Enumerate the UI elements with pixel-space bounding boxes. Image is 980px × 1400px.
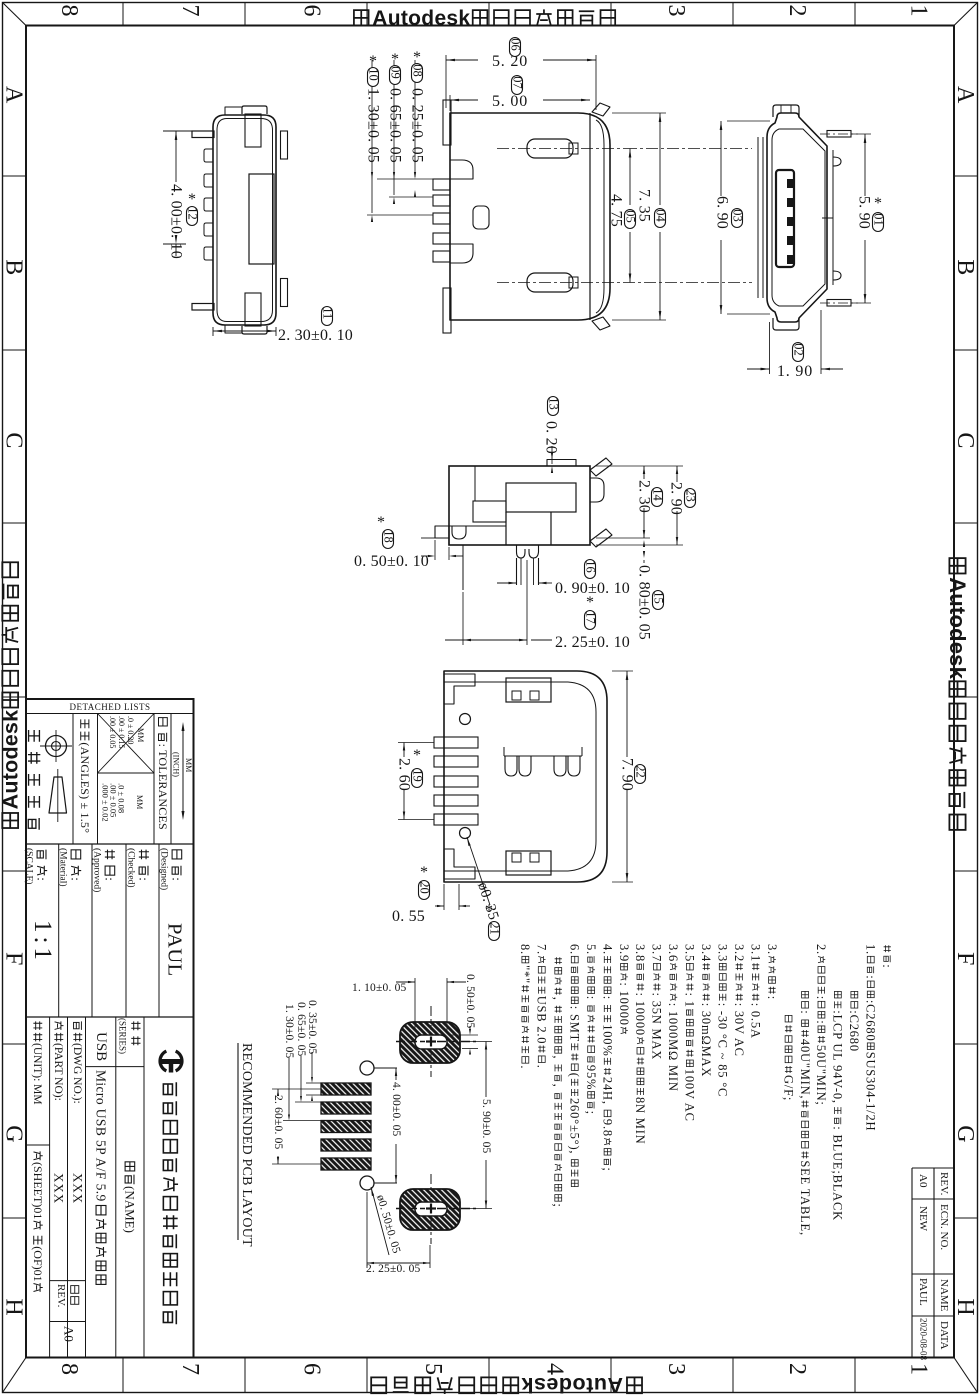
name label cell	[123, 1162, 138, 1233]
svg-text:05: 05	[623, 210, 637, 223]
svg-text::: :	[170, 877, 185, 881]
series cell	[131, 1021, 140, 1045]
svg-text:22: 22	[633, 765, 647, 778]
svg-text:G/F;: G/F;	[781, 1075, 795, 1101]
svg-text:1.: 1.	[864, 944, 878, 955]
svg-text:A: A	[952, 86, 978, 104]
svg-text::: :	[765, 996, 779, 1000]
balloon 04	[655, 209, 666, 228]
svg-text::: :	[103, 877, 118, 881]
svg-text:21: 21	[487, 922, 501, 935]
view E bracket top-left	[444, 674, 475, 704]
svg-text:*: *	[188, 191, 196, 208]
svg-text:C: C	[0, 432, 26, 448]
dim 1.10±0.05 pcb	[414, 978, 416, 1031]
mm/inch arrow cell	[182, 726, 184, 816]
svg-text:2. 25±0. 05: 2. 25±0. 05	[366, 1263, 421, 1275]
svg-text:5. 90±0. 05: 5. 90±0. 05	[480, 1099, 492, 1154]
svg-text:16: 16	[583, 560, 597, 573]
svg-text::C2680: :C2680	[864, 1000, 878, 1042]
svg-text:Micro USB 5P A/F 5.9: Micro USB 5P A/F 5.9	[93, 1070, 108, 1202]
svg-text:6: 6	[299, 5, 325, 17]
view D left foot	[435, 526, 449, 538]
svg-text:0. 50±0. 10: 0. 50±0. 10	[354, 553, 429, 570]
svg-text:DETACHED LISTS: DETACHED LISTS	[69, 702, 150, 712]
svg-text:*: *	[485, 902, 493, 919]
svg-text:(: (	[568, 1073, 582, 1078]
svg-text:: 30mΩMAX: : 30mΩMAX	[699, 1003, 713, 1077]
svg-text:B: B	[952, 259, 978, 275]
view D baseline extension	[421, 537, 435, 539]
svg-text:.: .	[535, 1065, 549, 1069]
view B latch knob top	[527, 139, 573, 158]
svg-text:0. 20: 0. 20	[543, 421, 560, 454]
svg-text:: TOLERANCES: : TOLERANCES	[156, 744, 170, 830]
svg-text:*: *	[413, 49, 421, 66]
svg-text:(INCH): (INCH)	[171, 752, 180, 777]
company name	[163, 1082, 178, 1324]
svg-text:(ANGLES) ± 1.5°: (ANGLES) ± 1.5°	[78, 742, 92, 833]
view E 5 terminal pins	[434, 737, 478, 748]
dim 6.90	[727, 120, 770, 122]
balloon 21	[489, 922, 500, 941]
svg-text:NAME: NAME	[938, 1279, 950, 1312]
svg-text:(UNIT): MM: (UNIT): MM	[31, 1043, 43, 1105]
svg-text:,: ,	[551, 997, 565, 1001]
svg-text::: :	[798, 1010, 812, 1014]
corner diagonals	[3, 3, 27, 26]
svg-text:MM: MM	[135, 795, 144, 809]
svg-text:7. 90: 7. 90	[619, 758, 636, 791]
svg-text::: :	[35, 877, 50, 881]
svg-text:NEW: NEW	[917, 1206, 929, 1232]
svg-text:8: 8	[56, 5, 82, 17]
svg-text:G: G	[952, 1125, 978, 1142]
svg-text:PAUL: PAUL	[917, 1278, 929, 1306]
svg-text:1. 90: 1. 90	[777, 363, 813, 380]
svg-text:18: 18	[381, 530, 395, 543]
svg-text:10: 10	[366, 68, 380, 81]
svg-text:1. 30±0. 05: 1. 30±0. 05	[365, 88, 382, 163]
svg-text:A0: A0	[917, 1174, 929, 1188]
svg-text:A: A	[0, 86, 26, 104]
svg-text:USB 2.0: USB 2.0	[535, 996, 549, 1045]
balloon 06	[510, 38, 521, 57]
svg-text:260°±5°),: 260°±5°),	[568, 1098, 582, 1154]
svg-text:.0 ± 0.20: .0 ± 0.20	[126, 716, 135, 744]
notes 备注 text block	[518, 944, 894, 1236]
view B left shoulder top	[450, 160, 473, 179]
material cell	[69, 850, 84, 881]
usb cell	[93, 1032, 109, 1061]
view C right solder pins	[827, 131, 851, 138]
svg-text:2. 60±0. 05: 2. 60±0. 05	[272, 1095, 284, 1150]
view B corner clip top-right	[592, 103, 610, 116]
balloon 22	[635, 765, 646, 784]
dims 0.35 0.65 1.30 pcb pads	[306, 1000, 318, 1055]
dim 0.80±0.05	[643, 560, 645, 563]
dim 5.00	[449, 95, 451, 111]
view D right clip top	[590, 458, 612, 476]
svg-text:(SCALE): (SCALE)	[23, 848, 34, 884]
title block outline	[26, 699, 194, 1358]
view C shell seam lines	[757, 137, 759, 298]
svg-text:2. 25±0. 10: 2. 25±0. 10	[555, 634, 630, 651]
view A tongue block	[249, 174, 274, 264]
svg-text:F: F	[0, 952, 26, 965]
view A right side tabs	[281, 131, 288, 159]
view C top tab	[773, 105, 799, 117]
view C tongue with 5 contacts	[776, 170, 794, 267]
view E latch bottom	[506, 851, 551, 875]
svg-text::C2680: :C2680	[847, 1010, 861, 1052]
svg-text:3.1: 3.1	[748, 944, 762, 962]
dim 4.00±0.10 left of view A	[163, 130, 192, 132]
balloon 03	[732, 209, 743, 228]
dim 4.00±0.05 pcb	[395, 1068, 397, 1080]
svg-text:USB: USB	[93, 1032, 109, 1061]
pcb 5 pads (hatched)	[321, 1083, 371, 1095]
svg-text:50U"MIN;: 50U"MIN;	[814, 1045, 828, 1106]
dim 2.30±0.10 below view A	[212, 327, 214, 336]
svg-text:SEE TABLE,: SEE TABLE,	[798, 1160, 812, 1236]
svg-text:2: 2	[784, 1363, 810, 1375]
svg-text:0. 65±0. 05: 0. 65±0. 05	[295, 1002, 307, 1057]
view B latch knob bottom	[527, 273, 573, 292]
svg-text::: :	[864, 975, 878, 979]
svg-text:F: F	[952, 952, 978, 965]
view E latch top	[506, 678, 551, 702]
svg-text:(SERIES): (SERIES)	[118, 1018, 128, 1054]
svg-text:REV.: REV.	[55, 1284, 67, 1308]
svg-text:5. 90: 5. 90	[856, 196, 873, 229]
svg-text:2. 30: 2. 30	[636, 480, 653, 513]
view C right outer contour	[832, 150, 834, 285]
svg-text:12: 12	[185, 207, 199, 220]
balloon 19	[412, 769, 423, 788]
svg-text:RECOMMENDED PCB LAYOUT: RECOMMENDED PCB LAYOUT	[239, 1043, 254, 1247]
svg-text:1: 1	[906, 1363, 932, 1375]
view D center anchor block	[506, 512, 551, 545]
svg-text:.00 ± 0.05: .00 ± 0.05	[108, 716, 117, 748]
svg-text:95%: 95%	[584, 1065, 598, 1090]
svg-text:*: *	[391, 51, 399, 68]
svg-text:(Designed): (Designed)	[158, 848, 169, 890]
svg-text:3.2: 3.2	[732, 944, 746, 962]
svg-text:(Approved): (Approved)	[91, 848, 102, 892]
svg-text:Autodesk: Autodesk	[0, 710, 23, 810]
svg-text:17: 17	[583, 611, 597, 624]
view C: connector front view (top right)	[767, 113, 827, 322]
leader ø0.35 view E	[467, 837, 490, 905]
pcb via holes	[360, 1061, 374, 1075]
detached lists band	[26, 713, 194, 715]
rev cells	[71, 1286, 79, 1305]
svg-text:02: 02	[791, 343, 805, 356]
balloon 14	[652, 488, 663, 507]
svg-text:2.: 2.	[814, 944, 828, 955]
svg-text:: -30 °C ~ 85 °C: : -30 °C ~ 85 °C	[716, 1003, 730, 1097]
pcb pad top (hatched)	[400, 1022, 460, 1063]
view D top edge step (0.20)	[547, 460, 576, 467]
svg-text:ECN. NO.: ECN. NO.	[938, 1204, 950, 1250]
svg-text:5.: 5.	[584, 944, 598, 955]
svg-text:2. 90: 2. 90	[668, 482, 685, 515]
svg-text:A0: A0	[62, 1326, 77, 1342]
approved cell	[103, 850, 118, 881]
svg-text:XXX: XXX	[71, 1173, 86, 1204]
svg-text:(NAME): (NAME)	[123, 1186, 138, 1233]
svg-text::LCP UL 94V-0,: :LCP UL 94V-0,	[831, 1010, 845, 1104]
lower block grid	[49, 1017, 51, 1358]
svg-text:3.6: 3.6	[666, 944, 680, 962]
svg-text:6. 90: 6. 90	[714, 196, 731, 229]
leader ø0.50±0.05 pcb	[371, 1187, 389, 1255]
svg-text:.: .	[518, 1065, 532, 1069]
svg-text:REV.: REV.	[938, 1172, 950, 1196]
svg-text::: :	[69, 877, 84, 881]
svg-text:PAUL: PAUL	[164, 923, 186, 977]
svg-text::: :	[814, 1020, 828, 1024]
view A top latch tab	[242, 106, 267, 114]
svg-text:: 30V AC: : 30V AC	[732, 1003, 746, 1057]
svg-text:2. 30±0. 10: 2. 30±0. 10	[278, 327, 353, 344]
dim 2.30	[596, 465, 683, 467]
balloon 16	[585, 560, 596, 579]
svg-text:SUS304-1/2H: SUS304-1/2H	[864, 1052, 878, 1132]
svg-text:3.8: 3.8	[633, 944, 647, 962]
svg-text:100%: 100%	[600, 1024, 614, 1056]
view B left shoulder bottom	[450, 244, 473, 263]
svg-text:04: 04	[653, 209, 667, 222]
svg-text:0. 55: 0. 55	[392, 908, 425, 925]
svg-text:3.4: 3.4	[699, 944, 713, 962]
svg-text:3.3: 3.3	[716, 944, 730, 962]
tolerances label cell	[156, 718, 170, 830]
svg-text:1. 10±0. 05: 1. 10±0. 05	[352, 982, 407, 994]
svg-text:MM: MM	[184, 758, 193, 772]
balloon 13	[548, 397, 559, 416]
svg-text:;: ;	[584, 1111, 598, 1115]
svg-text:23: 23	[683, 489, 697, 502]
svg-text:3.: 3.	[765, 944, 779, 955]
RECOMMENDED PCB LAYOUT title	[239, 1043, 254, 1247]
balloon 02	[793, 343, 804, 362]
checked cell	[137, 850, 152, 881]
svg-text:06: 06	[508, 38, 522, 51]
view E bracket bottom-left	[444, 849, 475, 879]
svg-text:Autodesk: Autodesk	[521, 1373, 623, 1395]
svg-text:15: 15	[651, 591, 665, 604]
view D right clip bottom	[590, 529, 612, 547]
view C right small bumps	[833, 157, 841, 166]
svg-text:40U"MIN,: 40U"MIN,	[798, 1039, 812, 1099]
svg-text:2020-08-08: 2020-08-08	[919, 1318, 929, 1360]
balloon 11	[322, 307, 333, 326]
view A: connector side elevation (top-left)	[213, 115, 276, 325]
dim 0.20 top	[551, 446, 553, 464]
view E spring contacts	[505, 756, 517, 776]
svg-text:Autodesk: Autodesk	[945, 577, 970, 679]
svg-text:*: *	[369, 53, 377, 70]
svg-text:*: *	[420, 864, 428, 881]
dim 2.25±0.05 pcb	[366, 1192, 368, 1268]
svg-text:*: *	[377, 514, 385, 531]
watermark bottom (rotated 180)	[371, 1373, 642, 1397]
dim 2.90	[596, 544, 683, 546]
svg-text:20: 20	[417, 881, 431, 894]
dim 5.90	[851, 133, 871, 135]
svg-text:4. 00±0. 10: 4. 00±0. 10	[168, 184, 185, 259]
dim 2.60±0.05 view E	[398, 742, 434, 744]
svg-text:3.9: 3.9	[617, 944, 631, 962]
sheet cell	[31, 1151, 45, 1292]
svg-text:5: 5	[420, 1363, 446, 1375]
svg-text:(DWG NO.):: (DWG NO.):	[71, 1043, 83, 1104]
zone tick lines left/right	[3, 175, 27, 177]
dwg no cell	[71, 1021, 83, 1103]
svg-text:C: C	[952, 432, 978, 448]
svg-text::: :	[880, 964, 894, 968]
zone number labels	[56, 5, 82, 17]
watermark top	[354, 10, 369, 25]
designer row grid	[26, 1016, 194, 1018]
svg-text:,: ,	[551, 1084, 565, 1088]
company logo	[176, 1051, 182, 1071]
svg-text:*: *	[413, 747, 421, 764]
svg-text:07: 07	[510, 76, 524, 89]
dim 7.90 view E	[612, 670, 633, 672]
svg-text:: 35N MAX: : 35N MAX	[650, 993, 664, 1061]
svg-text:2. 60: 2. 60	[396, 758, 413, 791]
dim 0.50±0.05 pcb	[464, 974, 476, 1029]
svg-text:(PART NO):: (PART NO):	[52, 1043, 64, 1101]
balloon 17	[585, 611, 596, 630]
view A side pin bumps	[204, 149, 213, 162]
svg-text:XXX: XXX	[52, 1173, 67, 1204]
dim 4.75	[629, 149, 631, 206]
svg-text::: :	[814, 996, 828, 1000]
svg-text:: 1000MΩ MIN: : 1000MΩ MIN	[666, 1003, 680, 1092]
view A solder pins	[192, 131, 214, 138]
view B 5 terminal pins	[433, 179, 450, 190]
watermark right (rotated 90)	[945, 558, 970, 830]
watermark left (rotated -90)	[0, 562, 23, 828]
svg-text:4.: 4.	[600, 944, 614, 955]
angles tolerance cell	[78, 719, 92, 833]
svg-text:(Checked): (Checked)	[125, 848, 136, 888]
balloon 18	[383, 530, 394, 549]
svg-text:4. 00±0. 05: 4. 00±0. 05	[390, 1082, 402, 1137]
svg-text:(SHEET)01: (SHEET)01	[31, 1162, 45, 1219]
svg-text:8: 8	[56, 1363, 82, 1375]
view B: connector plan view (top middle)	[450, 113, 610, 320]
svg-text:7.: 7.	[535, 944, 549, 955]
svg-text:03: 03	[730, 209, 744, 222]
svg-text:6: 6	[299, 1363, 325, 1375]
svg-text:3: 3	[663, 1363, 689, 1375]
view D inner blocks	[506, 483, 576, 512]
dim 5.20	[445, 55, 447, 108]
svg-text:"*": "*"	[518, 965, 532, 984]
tolerance area grid	[26, 843, 194, 845]
balloon 01	[873, 213, 884, 232]
svg-text:01: 01	[871, 213, 885, 226]
view C bottom tab	[773, 318, 799, 330]
svg-text:*: *	[874, 195, 882, 212]
svg-text:(OF)01: (OF)01	[31, 1246, 45, 1281]
view D interior lines	[474, 466, 476, 501]
svg-text:7: 7	[177, 1363, 203, 1375]
dim 0.50±0.10	[434, 540, 436, 560]
svg-text:1. 30±0. 05: 1. 30±0. 05	[283, 1004, 295, 1059]
svg-text::: :	[137, 877, 152, 881]
svg-text:24H,: 24H,	[600, 1077, 614, 1105]
svg-text:: 10000: : 10000	[617, 982, 631, 1025]
svg-text:14: 14	[650, 488, 664, 501]
svg-text:0. 25±0. 05: 0. 25±0. 05	[409, 88, 426, 163]
dim 2.60±0.05 pcb	[272, 1088, 321, 1090]
unit cell	[31, 1021, 43, 1104]
svg-text:2: 2	[784, 5, 810, 17]
svg-text:11: 11	[320, 307, 334, 319]
dim 1.90	[769, 322, 771, 374]
pcb pad bottom (hatched)	[400, 1189, 460, 1230]
balloon 05	[625, 210, 636, 229]
part no cell	[52, 1021, 64, 1100]
svg-text::: :	[584, 996, 598, 1000]
svg-text:5. 20: 5. 20	[492, 53, 528, 70]
dim 0.25±0.05 / 0.65±0.05 / 1.30±0.05 columns	[377, 178, 433, 180]
balloon 12	[187, 207, 198, 226]
svg-text:B: B	[0, 259, 26, 275]
svg-text:0. 80±0. 05: 0. 80±0. 05	[636, 565, 653, 640]
svg-text:: 10000: : 10000	[633, 993, 647, 1036]
crossed-out mm tolerance cell	[98, 714, 155, 774]
balloon 07	[512, 76, 523, 95]
svg-text:4. 75: 4. 75	[608, 194, 625, 227]
view E screw holes	[460, 714, 471, 725]
svg-text:: BLUE;BLACK: : BLUE;BLACK	[831, 1126, 845, 1221]
dim 2.25±0.10	[462, 592, 464, 645]
svg-text:.000 ± 0.02: .000 ± 0.02	[101, 783, 111, 822]
svg-text:3.5: 3.5	[683, 944, 697, 962]
svg-text:8N MIN: 8N MIN	[633, 1097, 647, 1145]
dim 0.90±0.10	[497, 582, 516, 584]
svg-text:08: 08	[410, 64, 424, 77]
svg-text:0. 50±0. 05: 0. 50±0. 05	[464, 974, 476, 1029]
svg-text:100V AC: 100V AC	[683, 1069, 697, 1122]
revision table	[911, 1168, 913, 1358]
svg-text:;: ;	[551, 1203, 565, 1207]
svg-text:3: 3	[663, 5, 689, 17]
svg-text:: 1: : 1	[683, 993, 697, 1008]
svg-text:3.7: 3.7	[650, 944, 664, 962]
svg-text:MM: MM	[136, 728, 145, 742]
view B small center detail	[473, 206, 489, 229]
svg-text:6.: 6.	[568, 944, 582, 955]
view B mount tab bottom	[443, 288, 451, 333]
svg-text:9.8: 9.8	[600, 1119, 614, 1137]
view A bottom latch tab	[242, 326, 267, 334]
svg-text:09: 09	[388, 66, 402, 79]
view D right rounded tab	[590, 478, 604, 502]
svg-text:.00 ± 0.15: .00 ± 0.15	[117, 716, 126, 748]
view B mount tab top	[443, 100, 451, 145]
view D: connector side cutaway view (middle)	[449, 466, 590, 545]
svg-text:,: ,	[551, 1055, 565, 1059]
scale cell	[35, 850, 50, 881]
